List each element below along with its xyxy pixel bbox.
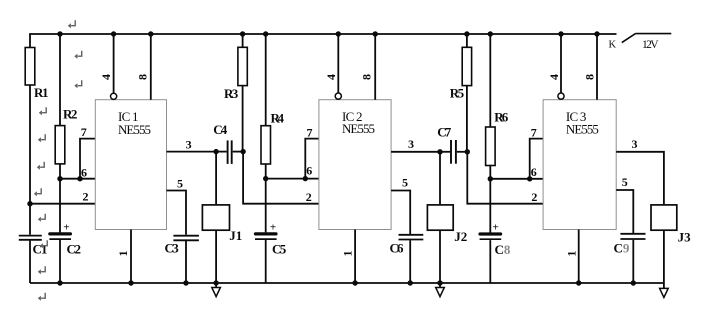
- node: pin6-2 R4: [263, 176, 268, 181]
- node: rail R4: [263, 31, 268, 36]
- svg-text:C3: C3: [165, 240, 180, 255]
- node: pin6-1 R2: [57, 176, 62, 181]
- wire: pin 3 output: [167, 151, 217, 153]
- wire: C4 left lead: [216, 151, 227, 153]
- capacitor C8 (electrolytic): [480, 222, 502, 240]
- svg-text:C2: C2: [67, 242, 82, 257]
- wire: pin 7 link IC2: [305, 139, 319, 179]
- svg-text:4: 4: [324, 74, 338, 80]
- node: rail R6: [488, 31, 493, 36]
- svg-text:C6: C6: [390, 241, 405, 256]
- svg-text:6: 6: [306, 164, 312, 178]
- node: rail pin4-1: [111, 31, 116, 36]
- op: IC2 NE555 box: [319, 100, 391, 230]
- wire: J3 to ground: [663, 230, 665, 288]
- wire: C8 to rail: [489, 240, 491, 283]
- svg-text:J1: J1: [229, 228, 242, 243]
- wire: pin 2 link: [30, 203, 95, 205]
- node: rail R3: [240, 31, 245, 36]
- node: C7 out: [465, 149, 470, 154]
- wire: C6 to rail: [409, 240, 411, 283]
- node: pin6-2 pin7: [303, 176, 308, 181]
- resistor R1: [25, 48, 35, 86]
- capacitor C4 coupling: [228, 140, 232, 164]
- resistor R3: [242, 34, 244, 47]
- wire: pin 8 IC3: [596, 34, 598, 100]
- wire: C7 left lead: [440, 151, 450, 153]
- capacitor C7 coupling: [451, 140, 456, 164]
- svg-text:R3: R3: [224, 86, 239, 101]
- wire: pin 1 (gnd): [130, 230, 132, 284]
- svg-text:3: 3: [632, 137, 638, 151]
- wire: R4 top feed: [265, 34, 267, 126]
- wire: top +12V rail: [30, 34, 617, 48]
- wire: pin 5 link IC3: [616, 190, 633, 234]
- svg-text:2: 2: [531, 190, 537, 204]
- svg-text:5: 5: [402, 176, 408, 190]
- svg-text:C4: C4: [213, 122, 228, 137]
- svg-text:NE555: NE555: [118, 122, 151, 137]
- wire: pin 6 link IC3: [490, 178, 543, 180]
- node: rail pin8-1: [148, 31, 153, 36]
- svg-text:NE555: NE555: [566, 122, 599, 137]
- resistor R2: [55, 126, 65, 164]
- wire: pin 3 IC3 to J3: [616, 152, 664, 205]
- wire: pin 5 link IC2: [391, 191, 410, 235]
- svg-text:K: K: [609, 40, 617, 51]
- svg-text:R5: R5: [450, 86, 465, 101]
- wire: bottom ground rail: [30, 282, 664, 284]
- svg-text:J2: J2: [454, 229, 467, 244]
- wire: J1 to ground: [215, 230, 217, 287]
- node: rail J1: [213, 280, 218, 285]
- capacitor C5 (electrolytic): [255, 222, 277, 240]
- svg-text:C5: C5: [272, 242, 287, 257]
- capacitor C6: [399, 235, 424, 240]
- svg-text:8: 8: [136, 74, 150, 80]
- wire: pin 4 IC2: [337, 34, 339, 93]
- node: rail pin4-3: [558, 31, 563, 36]
- node: rail pin8-3: [594, 31, 599, 36]
- svg-text:5: 5: [177, 176, 183, 190]
- svg-text:1: 1: [116, 251, 130, 257]
- svg-text:4: 4: [99, 74, 113, 80]
- capacitor C3: [173, 236, 199, 241]
- svg-text:3: 3: [186, 138, 192, 152]
- wire: C2 to ground rail: [59, 240, 61, 283]
- wire: stage2 to IC3 pin 2: [467, 152, 543, 204]
- ground symbol 3: [660, 288, 669, 297]
- node: pin2-1 left: [27, 201, 32, 206]
- wire: pin 5 link: [167, 191, 187, 235]
- svg-text:4: 4: [547, 74, 561, 80]
- svg-text:R6: R6: [494, 110, 509, 125]
- node: rail pin4-2: [336, 31, 341, 36]
- node: pin6-3 R6: [488, 176, 493, 181]
- node: rail R2: [57, 31, 62, 36]
- wire: C7 right lead: [457, 151, 467, 153]
- wire: pin 8 (Vcc): [150, 34, 152, 100]
- resistor R5: [466, 34, 468, 47]
- capacitor C2 (electrolytic): [49, 222, 71, 240]
- wire: pin 4 IC3: [560, 34, 562, 93]
- capacitor C9: [620, 234, 645, 239]
- wire: C4 right lead: [233, 151, 243, 153]
- wire: J2 to ground: [439, 230, 441, 287]
- wire: J2 drop: [439, 152, 441, 205]
- node: rail pin1-1: [128, 280, 133, 285]
- svg-text:2: 2: [306, 190, 312, 204]
- wire: R5 bottom to pin3 node: [466, 86, 468, 152]
- op: IC3 NE555 box: [543, 100, 616, 230]
- switch K: [622, 34, 672, 43]
- node: rail pin8-2: [373, 31, 378, 36]
- svg-text:2: 2: [83, 190, 89, 204]
- wire: pin 6 link: [60, 178, 95, 180]
- svg-text:+: +: [270, 222, 276, 234]
- ground symbol 2: [436, 288, 445, 297]
- svg-text:R2: R2: [63, 107, 77, 122]
- wire: C9 to rail: [632, 240, 634, 283]
- svg-text:R1: R1: [34, 85, 49, 100]
- svg-text:3: 3: [408, 137, 414, 151]
- svg-text:C1: C1: [33, 242, 48, 257]
- capacitor C1: [19, 236, 42, 240]
- wire: R2 to C2: [59, 164, 61, 233]
- wire: stage1 to IC2 pin 2: [243, 152, 319, 204]
- node: C4 out: [240, 149, 245, 154]
- wire: pin 3 IC2 output: [391, 151, 440, 153]
- resistor R6: [486, 127, 496, 166]
- wire: R6 top feed: [489, 34, 491, 127]
- node: pin6-1 pin7: [77, 176, 82, 181]
- svg-text:+: +: [493, 222, 499, 234]
- wire: R3 bottom to pin3 node: [242, 86, 244, 152]
- wire: pin 1 IC3: [578, 230, 580, 284]
- svg-text:7: 7: [307, 125, 313, 139]
- node: rail pin1-3: [576, 280, 581, 285]
- node: rail J2: [437, 280, 442, 285]
- wire: J1 drop from pin3 node: [215, 152, 217, 205]
- node: rail pin1-2: [352, 280, 357, 285]
- svg-text:NE555: NE555: [342, 121, 375, 136]
- wire: pin 1 IC2: [354, 230, 356, 284]
- paragraph return marks: [34, 20, 82, 301]
- wire: C3 to rail: [185, 241, 187, 283]
- wire: pin 4 (reset): [113, 34, 115, 93]
- node: rail C6: [408, 280, 413, 285]
- wire: R4 to C5: [265, 164, 267, 232]
- connector J3: [651, 205, 677, 230]
- wire: left drop below R1: [29, 85, 31, 235]
- connector J2: [427, 205, 453, 230]
- svg-text:8: 8: [359, 74, 373, 80]
- svg-text:+: +: [63, 222, 69, 234]
- wire: pin 6 link IC2: [266, 178, 319, 180]
- node: rail C2: [57, 280, 62, 285]
- wire: C5 to rail: [265, 240, 267, 283]
- wire: pin 7 link: [80, 139, 95, 179]
- svg-text:J3: J3: [678, 230, 692, 245]
- svg-text:1: 1: [565, 251, 579, 257]
- node: rail C9: [631, 280, 636, 285]
- svg-text:8: 8: [582, 74, 596, 80]
- svg-text:7: 7: [81, 125, 87, 139]
- wire: left drop below C1: [29, 241, 31, 283]
- node: rail R5: [464, 31, 469, 36]
- wire: R2 top feed: [59, 34, 61, 126]
- node: pin6-3 pin7: [527, 176, 532, 181]
- resistor R4: [261, 126, 271, 164]
- ground symbol 1: [212, 288, 221, 297]
- svg-text:12V: 12V: [642, 39, 659, 51]
- node: pin3-1 J1: [213, 149, 218, 154]
- svg-text:5: 5: [622, 175, 628, 189]
- op: IC1 NE555 box: [95, 100, 166, 230]
- svg-text:C9: C9: [614, 241, 630, 256]
- connector J1: [202, 205, 229, 230]
- svg-text:R4: R4: [271, 111, 285, 126]
- svg-text:1: 1: [341, 251, 355, 257]
- svg-text:C8: C8: [495, 242, 511, 257]
- wire: pin 8 IC2: [374, 34, 376, 100]
- svg-text:C7: C7: [437, 125, 452, 140]
- wire: R6 to C8: [489, 166, 491, 233]
- svg-text:7: 7: [531, 125, 537, 139]
- node: pin3-2 J2: [437, 149, 442, 154]
- node: rail C3: [183, 280, 188, 285]
- wire: pin 7 link IC3: [530, 139, 543, 179]
